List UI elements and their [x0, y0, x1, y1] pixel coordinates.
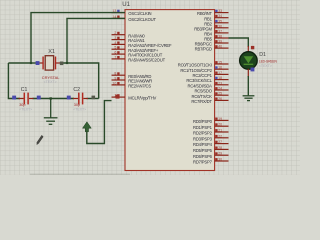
- IC U1 PIC16F877A microcontroller body: [125, 10, 215, 171]
- svg-text:22: 22: [218, 134, 222, 138]
- pin 34 RB1: [204, 14, 228, 21]
- pin 9 RE1/AN6/WR: [112, 77, 153, 84]
- svg-text:28: 28: [218, 146, 222, 150]
- pin 30 RD7/PSP7: [193, 158, 229, 165]
- pin 22 RD3/PSP3: [193, 134, 229, 141]
- svg-text:25: 25: [218, 92, 222, 96]
- svg-text:9: 9: [114, 77, 116, 81]
- wire MCLR routing in progress: [87, 101, 112, 144]
- pin 19 RD0/PSP0: [193, 117, 229, 124]
- crystal X1: [39, 49, 61, 84]
- svg-text:24: 24: [218, 87, 222, 91]
- svg-text:RD7/PSP7: RD7/PSP7: [193, 160, 213, 165]
- svg-text:RD4/PSP4: RD4/PSP4: [193, 142, 213, 147]
- wire crystal right to C2 drop: [62, 63, 99, 99]
- svg-text:5: 5: [114, 46, 116, 50]
- svg-text:<TEXT>: <TEXT>: [259, 64, 272, 68]
- svg-text:38: 38: [218, 35, 222, 39]
- pin 29 RD6/PSP6: [193, 152, 229, 159]
- svg-text:20: 20: [218, 123, 222, 127]
- svg-text:RB7/PGD: RB7/PGD: [195, 47, 212, 52]
- svg-text:7: 7: [114, 55, 116, 59]
- pin 16 RC1/T1OSI/CCP2: [180, 66, 228, 73]
- pin 24 RC5/SDO: [194, 87, 228, 94]
- svg-text:CRYSTAL: CRYSTAL: [42, 75, 60, 80]
- svg-text:C2: C2: [73, 87, 80, 93]
- ground under C1 C2: [44, 99, 58, 125]
- pin 18 RC3/SCK/SCL: [186, 76, 228, 83]
- bottom edge shading: [30, 174, 130, 175]
- svg-text:17: 17: [218, 71, 222, 75]
- wire C1 right to ground to C2 left: [33, 98, 75, 100]
- pin 2 RA0/AN0: [112, 31, 146, 38]
- wire-mode arrow cursor: [83, 122, 92, 132]
- pin 27 RD4/PSP4: [193, 140, 229, 147]
- pin 21 RD2/PSP2: [193, 129, 229, 136]
- node C1 left pin end: [12, 96, 16, 100]
- ground under LED: [243, 96, 255, 101]
- pin 37 RB4: [204, 29, 228, 36]
- svg-text:RD3/PSP3: RD3/PSP3: [193, 136, 213, 141]
- svg-text:21: 21: [218, 129, 222, 133]
- pin 36 RB3/PGM: [194, 24, 228, 31]
- pin 28 RD5/PSP5: [193, 146, 229, 153]
- svg-text:35: 35: [218, 19, 222, 23]
- svg-text:30p: 30p: [74, 103, 80, 107]
- pin 5 RA3/AN3/VREF+: [112, 46, 159, 53]
- svg-text:LED-GREEN: LED-GREEN: [259, 60, 278, 64]
- wire OSC1 pin13 to crystal left and C1: [8, 13, 125, 63]
- LED D1 anode stub: [247, 46, 249, 53]
- svg-text:RD6/PSP6: RD6/PSP6: [193, 154, 213, 159]
- pin 23 RC4/SDI/SDA: [187, 81, 228, 88]
- pencil cursor: [37, 135, 44, 145]
- pin 35 RB2: [204, 19, 228, 26]
- node LED top marker: [251, 46, 254, 49]
- svg-text:23: 23: [218, 81, 222, 85]
- svg-text:26: 26: [218, 97, 222, 101]
- svg-text:29: 29: [218, 152, 222, 156]
- svg-text:<TEXT>: <TEXT>: [73, 107, 86, 111]
- wire OSC2 pin14 to crystal right and C2: [67, 18, 125, 63]
- pin 4 RA2/AN2/VREF-/CVREF: [112, 41, 173, 48]
- wire LED cathode to ground: [247, 76, 249, 95]
- pin 8 RE0/AN5/RD: [112, 72, 152, 79]
- svg-text:36: 36: [218, 24, 222, 28]
- svg-text:<TEXT>: <TEXT>: [19, 107, 32, 111]
- wire RB5 pin to LED D1: [229, 38, 249, 47]
- svg-text:4: 4: [114, 41, 116, 45]
- svg-text:RD1/PSP1: RD1/PSP1: [193, 125, 213, 130]
- capacitor C2: [73, 87, 88, 112]
- node MCLR pin end marker: [116, 95, 120, 99]
- pin 20 RD1/PSP1: [193, 123, 229, 130]
- node C2 left pin end: [67, 96, 71, 100]
- pin 39 RB6/PGC: [195, 40, 229, 47]
- LED D1 cathode stub: [247, 69, 249, 77]
- svg-text:RD5/PSP5: RD5/PSP5: [193, 148, 213, 153]
- svg-text:<TEXT>: <TEXT>: [44, 80, 57, 84]
- pin 17 RC2/CCP1: [193, 71, 229, 78]
- svg-text:D1: D1: [259, 52, 266, 58]
- svg-text:27: 27: [218, 140, 222, 144]
- node LED bottom pin end: [251, 68, 255, 72]
- svg-text:15: 15: [218, 61, 222, 65]
- node C2 right pin end: [92, 96, 96, 100]
- pin 7 RA5/AN4/SS/C2OUT: [112, 55, 166, 62]
- wire C2 right to vertical node: [87, 98, 99, 100]
- svg-text:RA5/AN4/SS/C2OUT: RA5/AN4/SS/C2OUT: [128, 58, 165, 63]
- wire crystal left segment: [31, 62, 39, 64]
- LED D1: [240, 52, 278, 70]
- pin 25 RC6/TX/CK: [192, 92, 229, 99]
- pin 38 RB5: [204, 35, 228, 42]
- svg-text:37: 37: [218, 29, 222, 33]
- svg-text:X1: X1: [48, 49, 55, 55]
- svg-text:RD0/PSP0: RD0/PSP0: [193, 119, 213, 124]
- node crystal right pin end: [60, 62, 64, 66]
- svg-text:10: 10: [112, 81, 116, 85]
- svg-text:40: 40: [218, 45, 222, 49]
- svg-text:OSC2/CLKOUT: OSC2/CLKOUT: [128, 17, 156, 22]
- pin 3 RA1/AN1: [112, 36, 146, 43]
- svg-text:3: 3: [114, 36, 116, 40]
- pin 1 MCLR/Vpp/THV: [112, 94, 157, 101]
- node crystal left pin end: [36, 61, 40, 65]
- pin 26 RC7/RX/DT: [191, 97, 228, 104]
- svg-text:OSC1/CLKIN: OSC1/CLKIN: [128, 11, 151, 16]
- svg-text:16: 16: [218, 66, 222, 70]
- pin 33 RB0/INT: [197, 9, 228, 16]
- svg-text:RD2/PSP2: RD2/PSP2: [193, 131, 213, 136]
- svg-text:RC7/RX/DT: RC7/RX/DT: [191, 99, 212, 104]
- svg-text:33: 33: [218, 9, 222, 13]
- pin 10 RE2/AN7/CS: [112, 81, 152, 88]
- svg-text:RE2/AN7/CS: RE2/AN7/CS: [128, 84, 151, 89]
- svg-text:30p: 30p: [19, 103, 25, 107]
- svg-text:C1: C1: [21, 87, 28, 93]
- svg-text:18: 18: [218, 76, 222, 80]
- svg-text:30: 30: [218, 158, 222, 162]
- pin 14 OSC2/CLKOUT: [112, 15, 157, 22]
- svg-text:MCLR/Vpp/THV: MCLR/Vpp/THV: [128, 96, 156, 101]
- svg-text:39: 39: [218, 40, 222, 44]
- svg-text:U1: U1: [122, 2, 130, 8]
- svg-text:19: 19: [218, 117, 222, 121]
- svg-text:34: 34: [218, 14, 222, 18]
- capacitor C1: [19, 87, 34, 112]
- pin 15 RC0/T1OSO/T1CKI: [178, 61, 229, 68]
- junction node at ground stem: [50, 97, 52, 99]
- pin 6 RA4/T0CKI/C1OUT: [112, 51, 163, 58]
- pin 13 OSC1/CLKIN: [112, 9, 152, 16]
- node C1 right pin end: [37, 96, 41, 100]
- junction node at OSC2 drop: [66, 62, 68, 64]
- svg-text:2: 2: [114, 31, 116, 35]
- junction node at OSC1 drop: [30, 62, 32, 64]
- pin 40 RB7/PGD: [195, 45, 229, 52]
- svg-text:8: 8: [114, 72, 116, 76]
- svg-text:6: 6: [114, 51, 116, 55]
